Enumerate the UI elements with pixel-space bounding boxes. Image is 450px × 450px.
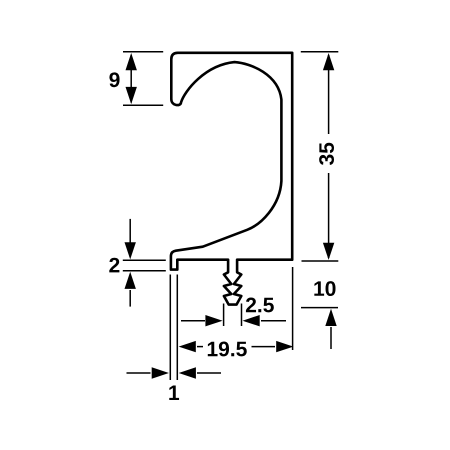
dim 2.5: left arrow shaft [181, 320, 205, 322]
dim 9: arrow shaft [130, 55, 132, 103]
dim 10: bottom extension line [301, 307, 338, 309]
dim 2.5: left extension line [223, 304, 225, 327]
dim 9: bottom extension line [123, 104, 163, 106]
dim 10: arrow shaft [330, 327, 332, 349]
dim 2: bottom extension line [123, 270, 166, 272]
dim 10: up arrowhead [325, 309, 336, 326]
dim 1: left arrowhead pointing right [152, 367, 169, 378]
dim 19.5: right extension line [292, 267, 294, 350]
dim 2.5: left arrowhead pointing right [205, 315, 222, 326]
dim 35: lower arrow shaft [328, 173, 330, 258]
dim 9: up arrowhead [126, 53, 137, 70]
dim 2: upper arrow shaft [129, 219, 131, 257]
label 1 [169, 386, 179, 400]
dim 35: up arrowhead [323, 53, 334, 70]
dim 1: left extension line [169, 275, 171, 381]
dim 35: top extension line [301, 51, 339, 53]
dim 19.5: right arrowhead pointing right [276, 341, 293, 352]
dim 2: lower arrow shaft [129, 290, 131, 307]
label 9 [109, 72, 119, 87]
dim 19.5: left arrowhead pointing left [179, 341, 196, 352]
label 10 [314, 281, 335, 296]
dim 35: bottom extension line [302, 260, 339, 262]
dim 35: upper arrow shaft [328, 55, 330, 134]
dim 2: top extension line [123, 259, 166, 261]
dim 35: down arrowhead [323, 243, 334, 260]
dim 9: top extension line [123, 51, 163, 53]
dim 9: down arrowhead [126, 87, 137, 104]
label 2.5 [246, 298, 274, 313]
dim 2.5: right arrow shaft [261, 320, 286, 322]
profile outline (handle cross-section) [171, 53, 292, 305]
label 35 (rotated) [319, 143, 334, 165]
dim 2: up arrowhead [125, 272, 136, 289]
dim 1: left arrow shaft [127, 372, 151, 374]
dim 2.5: right extension line [241, 304, 243, 327]
dim 19.5: left shaft [197, 346, 203, 348]
label 19.5 [208, 342, 247, 357]
dim 1: right arrow shaft [197, 372, 221, 374]
dim 2: down arrowhead [125, 242, 136, 259]
dim 1: right arrowhead pointing left [179, 367, 196, 378]
dim 1: right extension line [176, 275, 178, 381]
dim 19.5: right shaft [252, 346, 276, 348]
label 2 [109, 258, 119, 273]
dim 2.5: right arrowhead pointing left [243, 315, 260, 326]
